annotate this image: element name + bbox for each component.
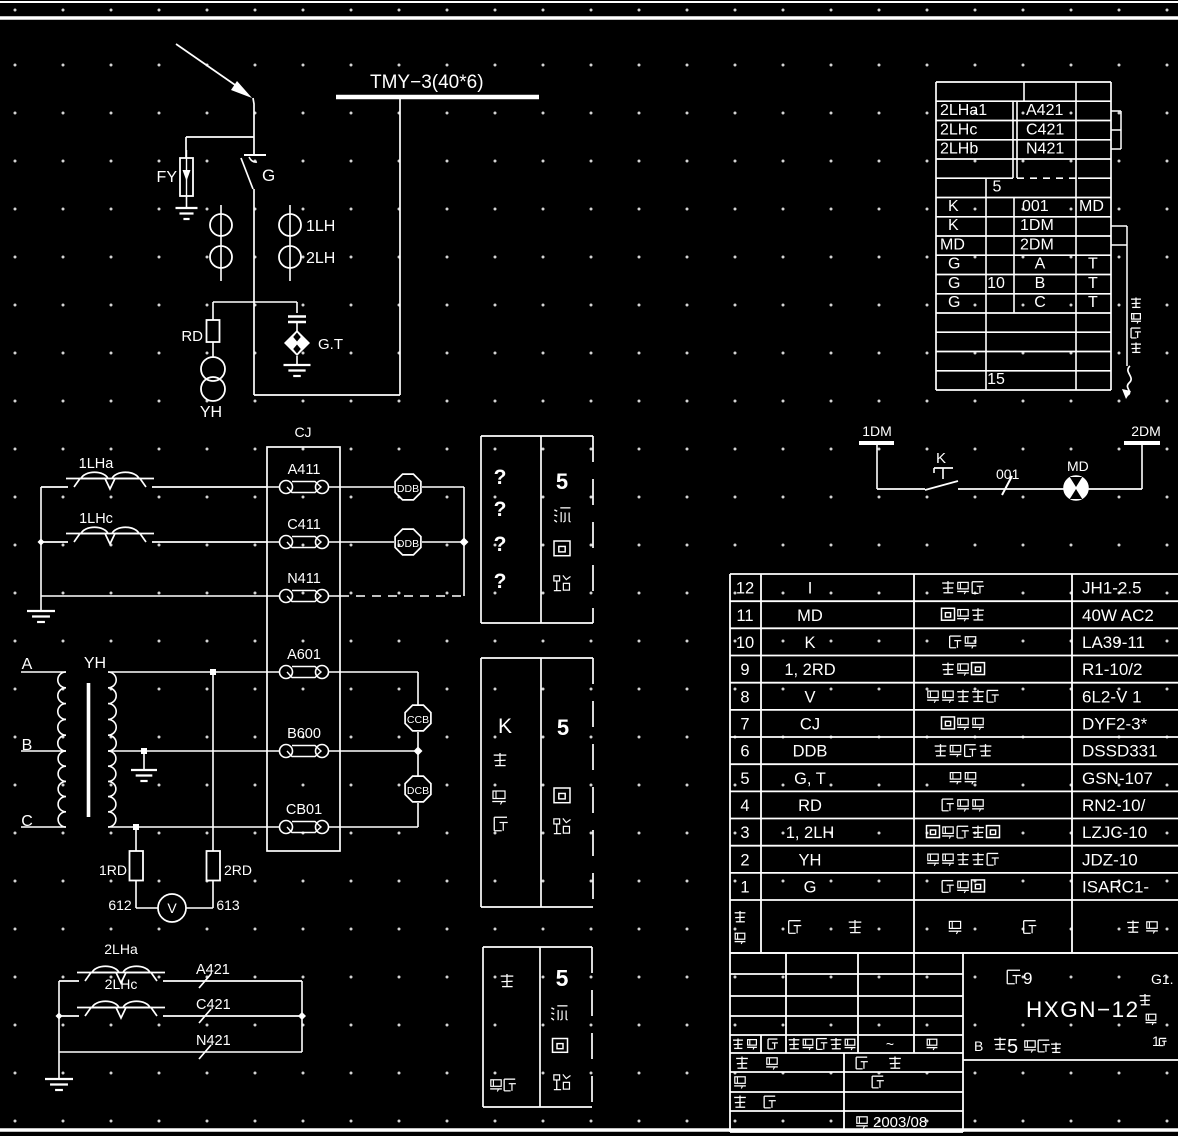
svg-text:HXGN−12: HXGN−12 [1026, 997, 1140, 1022]
svg-text:3: 3 [740, 824, 749, 842]
svg-text:TMY−3(40*6): TMY−3(40*6) [370, 72, 484, 93]
svg-text:2LHb: 2LHb [940, 141, 978, 158]
svg-text:?: ? [494, 466, 507, 489]
svg-text:A601: A601 [287, 647, 321, 663]
svg-text:2: 2 [740, 851, 749, 869]
svg-text:10: 10 [987, 275, 1005, 292]
svg-text:T: T [1088, 275, 1098, 292]
svg-text:B600: B600 [287, 726, 321, 742]
svg-text:10: 10 [736, 634, 754, 652]
svg-text:G, T: G, T [794, 770, 826, 788]
svg-text:5: 5 [1007, 1036, 1018, 1058]
svg-text:I: I [808, 580, 813, 598]
svg-text:YH: YH [200, 404, 222, 421]
svg-text:LA39-11: LA39-11 [1082, 633, 1145, 652]
svg-text:R1-10/2: R1-10/2 [1082, 660, 1142, 679]
svg-text:1: 1 [740, 879, 749, 897]
svg-text:2LHc: 2LHc [105, 976, 138, 992]
svg-text:6L2-V 1: 6L2-V 1 [1082, 687, 1142, 706]
svg-text:1LH: 1LH [306, 218, 335, 235]
svg-text:C421: C421 [1026, 121, 1064, 138]
svg-text:RD: RD [181, 328, 203, 345]
svg-text:CCB: CCB [407, 714, 429, 726]
svg-text:612: 612 [108, 897, 132, 913]
svg-text:2DM: 2DM [1020, 236, 1054, 253]
svg-text:CJ: CJ [800, 715, 820, 733]
svg-text:6: 6 [740, 743, 749, 761]
svg-text:15: 15 [987, 371, 1005, 388]
svg-text:5: 5 [556, 965, 569, 991]
svg-text:5: 5 [557, 715, 569, 740]
svg-text:YH: YH [799, 851, 822, 869]
svg-text:DCB: DCB [407, 785, 429, 797]
svg-text:ISARC1-: ISARC1- [1082, 878, 1149, 897]
svg-text:A421: A421 [196, 962, 230, 978]
svg-text:2LHa: 2LHa [104, 941, 138, 957]
svg-text:C411: C411 [287, 517, 321, 533]
svg-text:N411: N411 [287, 571, 321, 587]
svg-text:K: K [936, 450, 946, 467]
svg-text:CB01: CB01 [286, 802, 322, 818]
svg-text:7: 7 [740, 715, 749, 733]
svg-text:40W AC2: 40W AC2 [1082, 606, 1154, 625]
svg-text:MD: MD [1079, 198, 1104, 215]
svg-text:JDZ-10: JDZ-10 [1082, 850, 1138, 869]
svg-text:G1.: G1. [1151, 971, 1174, 987]
svg-text:RD: RD [798, 797, 822, 815]
svg-text:G: G [262, 166, 275, 185]
svg-text:1, 2RD: 1, 2RD [784, 661, 835, 679]
svg-text:G: G [948, 294, 960, 311]
svg-text:9: 9 [1023, 969, 1032, 988]
svg-text:K: K [948, 217, 959, 234]
svg-text:1DM: 1DM [862, 423, 892, 439]
svg-text:DDB: DDB [793, 743, 828, 761]
svg-text:JH1-2.5: JH1-2.5 [1082, 579, 1142, 598]
svg-text:CJ: CJ [294, 424, 311, 440]
svg-text:N421: N421 [1026, 141, 1064, 158]
svg-text:001: 001 [1022, 198, 1049, 215]
svg-text:1LHa: 1LHa [79, 456, 115, 472]
svg-text:2LH: 2LH [306, 250, 335, 267]
svg-text:?: ? [494, 533, 507, 556]
svg-text:4: 4 [740, 797, 749, 815]
svg-text:G: G [804, 879, 817, 897]
svg-text:2003/08: 2003/08 [873, 1114, 927, 1131]
svg-text:5: 5 [993, 179, 1002, 196]
svg-text:LZJC-10: LZJC-10 [1082, 823, 1147, 842]
svg-text:B: B [1035, 275, 1046, 292]
svg-text:B: B [974, 1038, 983, 1054]
svg-text:DDB: DDB [397, 483, 419, 495]
svg-text:?: ? [494, 498, 507, 521]
svg-text:G.T: G.T [318, 336, 343, 353]
svg-text:1LHc: 1LHc [79, 511, 113, 527]
svg-text:5: 5 [556, 469, 568, 494]
svg-text:MD: MD [940, 236, 965, 253]
svg-text:A421: A421 [1026, 102, 1063, 119]
svg-text:MD: MD [1067, 458, 1089, 474]
svg-text:A: A [22, 656, 33, 673]
svg-text:1, 2LH: 1, 2LH [786, 824, 835, 842]
svg-text:G: G [948, 275, 960, 292]
svg-text:1DM: 1DM [1020, 217, 1054, 234]
svg-text:K: K [948, 198, 959, 215]
svg-text:1RD: 1RD [99, 862, 127, 878]
svg-text:DDB: DDB [397, 538, 419, 550]
svg-text:001: 001 [996, 466, 1020, 482]
svg-text:2RD: 2RD [224, 862, 252, 878]
svg-text:8: 8 [740, 688, 749, 706]
svg-text:V: V [804, 688, 815, 706]
svg-text:9: 9 [740, 661, 749, 679]
svg-text:FY: FY [157, 169, 178, 186]
svg-text:613: 613 [216, 897, 240, 913]
svg-text:RN2-10/: RN2-10/ [1082, 796, 1146, 815]
svg-text:A411: A411 [288, 462, 321, 478]
svg-text:V: V [167, 900, 177, 916]
svg-text:MD: MD [797, 607, 823, 625]
svg-text:G: G [948, 256, 960, 273]
svg-text:DSSD331: DSSD331 [1082, 742, 1158, 761]
svg-text:C421: C421 [196, 997, 231, 1013]
svg-text:11: 11 [736, 607, 753, 625]
svg-text:C: C [1034, 294, 1046, 311]
svg-text:12: 12 [736, 580, 754, 598]
svg-text:T: T [1088, 294, 1098, 311]
svg-text:2LHc: 2LHc [940, 121, 977, 138]
svg-text:?: ? [494, 570, 507, 593]
svg-text:T: T [1088, 256, 1098, 273]
svg-text:YH: YH [84, 655, 106, 672]
svg-text:2DM: 2DM [1131, 423, 1161, 439]
svg-text:5: 5 [740, 770, 749, 788]
svg-text:GSN-107: GSN-107 [1082, 769, 1153, 788]
svg-text:~: ~ [886, 1036, 894, 1052]
svg-text:2LHa1: 2LHa1 [940, 102, 987, 119]
svg-text:A: A [1035, 256, 1046, 273]
svg-text:K: K [498, 715, 512, 738]
svg-text:K: K [804, 634, 815, 652]
svg-text:DYF2-3*: DYF2-3* [1082, 714, 1148, 733]
svg-text:N421: N421 [196, 1033, 231, 1049]
